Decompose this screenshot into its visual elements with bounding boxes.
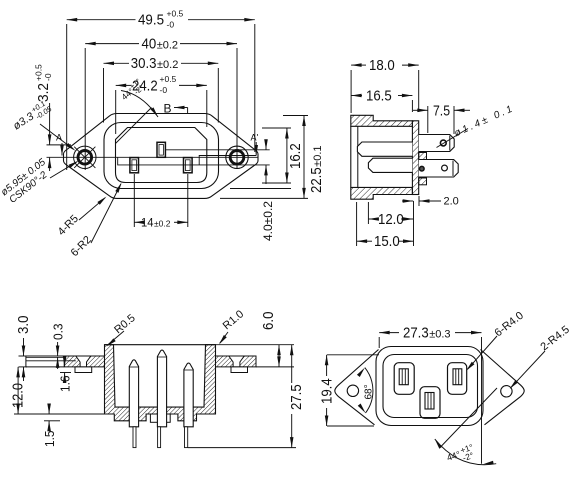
lower spade terminal xyxy=(419,160,459,178)
svg-text:+0.5: +0.5 xyxy=(160,74,177,84)
outer body rounded rect xyxy=(376,347,483,426)
body back face lines xyxy=(350,126,352,187)
left flange wing inner part (hatched, with countersink) xyxy=(64,356,104,367)
earth pin E xyxy=(157,142,165,157)
svg-text:49.5: 49.5 xyxy=(138,12,164,29)
svg-text:15.0: 15.0 xyxy=(374,233,400,250)
flange step block upper xyxy=(419,153,427,162)
dimension 12.0 (side view) xyxy=(368,201,413,246)
lower terminal tip fold xyxy=(452,161,454,177)
svg-text:12.0: 12.0 xyxy=(378,211,404,228)
dimension 19.4 (rotated) xyxy=(319,355,380,426)
slot L (top-left) xyxy=(394,363,414,395)
svg-text:+0.5: +0.5 xyxy=(167,9,184,19)
dimension 15.0 (side view) xyxy=(357,202,414,250)
svg-text:0.3: 0.3 xyxy=(51,324,66,341)
dimension 22.5±0.1 (rotated) xyxy=(220,116,325,199)
upper spade terminal xyxy=(419,135,455,152)
leader Φ5.95±0.05 CSK90°-2 xyxy=(0,157,79,207)
dimension 40±0.2 xyxy=(85,35,237,170)
dimension 49.5 +0.5/-0 xyxy=(67,9,255,171)
dimension 3.0 (rotated) xyxy=(15,316,32,382)
dimension 1.6 (rotated) xyxy=(58,356,73,392)
flange step block lower xyxy=(419,178,427,185)
slot N (top-right) xyxy=(448,363,467,395)
dimension 27.3±0.3 xyxy=(379,324,481,403)
svg-text:7.5: 7.5 xyxy=(433,102,450,119)
dimension 16.5 xyxy=(351,88,412,113)
horizontal centerline through holes xyxy=(47,156,258,158)
dimension 1.5 (rotated) xyxy=(42,404,60,448)
leader Φ3.3 +0.1/-0.05 xyxy=(9,97,76,152)
left pin (section) xyxy=(129,360,138,427)
rivet on lower terminal xyxy=(420,166,425,171)
mounting hole left xyxy=(74,146,96,168)
recess rounded rectangle xyxy=(104,123,219,189)
svg-text:4.0±0.2: 4.0±0.2 xyxy=(261,201,275,241)
svg-text:6.0: 6.0 xyxy=(260,312,277,331)
angle 44° +1/-2 annotation (rear view) xyxy=(433,388,497,468)
svg-text:A: A xyxy=(56,133,62,143)
left pin tail xyxy=(133,427,136,448)
dimension 27.5 (rotated) xyxy=(188,345,305,448)
left flange wing outer part (plain) xyxy=(26,356,76,367)
right ear xyxy=(481,350,525,425)
left countersink sleeve xyxy=(75,367,92,373)
section marker B xyxy=(164,102,188,116)
svg-text:12.0: 12.0 xyxy=(10,383,27,408)
body walls + floor + side pads (hatched) xyxy=(105,345,216,421)
svg-text:19.4: 19.4 xyxy=(319,378,336,404)
flange outline xyxy=(64,114,259,199)
dimension 12.0 (rotated, bottom view) xyxy=(10,367,105,414)
center pin (section) xyxy=(157,350,166,427)
cup far rim edge xyxy=(105,344,216,346)
dimension 0.3 (rotated) xyxy=(51,324,66,370)
leader 2-R4.5 xyxy=(508,324,570,390)
body bottom wall (hatched) xyxy=(351,187,413,199)
dimension 18.0 xyxy=(351,57,419,113)
svg-text:B: B xyxy=(164,102,172,116)
svg-text:-0: -0 xyxy=(160,85,168,95)
dimension 14±0.2 xyxy=(134,174,188,230)
lower terminal hole xyxy=(442,165,448,171)
svg-text:1.6: 1.6 xyxy=(58,376,73,393)
dimension 4.0±0.2 (rotated) xyxy=(261,139,275,241)
upper terminal tip fold xyxy=(449,136,451,151)
upper terminal hole Φ1.4 xyxy=(440,140,446,146)
dimension 24.2 +0.5/-0 xyxy=(116,74,207,134)
svg-text:-0: -0 xyxy=(167,20,175,30)
right ear hole xyxy=(501,386,512,397)
lower contact bar xyxy=(368,158,412,172)
section marker A (left) xyxy=(56,133,64,156)
earth pin centerline xyxy=(166,149,270,151)
center pad (white) xyxy=(150,414,170,422)
dimension 30.3±0.2 xyxy=(104,55,219,122)
svg-text:2.0: 2.0 xyxy=(444,196,459,208)
dimension 6.0 (rotated) xyxy=(216,312,295,367)
svg-text:14±0.2: 14±0.2 xyxy=(141,216,171,230)
svg-text:+0.5: +0.5 xyxy=(34,64,44,81)
leader 6-R4.0 xyxy=(465,310,526,372)
dimension 16.2 (rotated) xyxy=(262,128,304,183)
neutral pin N xyxy=(184,158,193,173)
mounting hole right xyxy=(226,146,248,168)
dimension 3.2 +0.5/-0 (rotated) xyxy=(34,64,72,171)
flange (hatched) xyxy=(412,121,418,195)
svg-text:18.0: 18.0 xyxy=(369,57,395,74)
dimension 7.5 xyxy=(413,102,470,134)
angle 68° annotation xyxy=(357,366,375,414)
right pin tail xyxy=(185,427,188,448)
leader 4-R5 xyxy=(56,195,108,238)
stepped section line A-A xyxy=(118,157,270,165)
line pin L xyxy=(130,158,139,173)
svg-text:A': A' xyxy=(251,133,259,143)
right pin (section) xyxy=(184,363,193,427)
section marker A' (right) xyxy=(251,133,259,156)
svg-text:-0: -0 xyxy=(43,73,53,81)
right flange wing (hatched, with countersink) xyxy=(216,356,257,367)
upper contact bar xyxy=(357,142,412,156)
dimension 2.0 xyxy=(402,196,459,208)
svg-text:3.2: 3.2 xyxy=(35,83,52,102)
center pin tail xyxy=(158,427,161,448)
left ear xyxy=(335,350,379,425)
leader Φ1.4±0.1 xyxy=(437,103,517,148)
C14 opening xyxy=(116,128,207,183)
svg-text:16.5: 16.5 xyxy=(366,88,392,105)
right countersink sleeve xyxy=(231,367,248,373)
slot E (bottom-center) xyxy=(420,387,440,419)
svg-text:27.5: 27.5 xyxy=(288,384,305,410)
leader R1.0 xyxy=(218,308,247,345)
angle 44° +1/-2 annotation xyxy=(116,77,160,144)
body top wall (hatched) xyxy=(351,115,413,126)
svg-text:3.0: 3.0 xyxy=(15,316,32,335)
svg-text:16.2: 16.2 xyxy=(287,143,304,169)
leader 6-R2 xyxy=(69,182,123,259)
inner body rounded rect xyxy=(383,355,478,418)
svg-text:68°: 68° xyxy=(364,384,375,399)
svg-text:1.5: 1.5 xyxy=(42,431,57,448)
leader R0.5 xyxy=(105,312,137,348)
left ear hole xyxy=(347,385,358,396)
